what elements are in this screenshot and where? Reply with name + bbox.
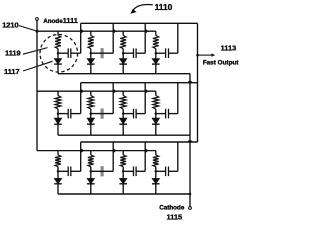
svg-text:1119: 1119 xyxy=(5,48,21,57)
svg-text:1210: 1210 xyxy=(2,21,18,30)
svg-text:1113: 1113 xyxy=(221,44,237,53)
svg-text:1110: 1110 xyxy=(155,2,173,12)
svg-text:1115: 1115 xyxy=(167,213,183,221)
svg-text:Cathode: Cathode xyxy=(159,204,185,211)
svg-text:1117: 1117 xyxy=(4,67,20,76)
svg-text:Anode1111: Anode1111 xyxy=(43,16,78,25)
svg-text:Fast Output: Fast Output xyxy=(203,59,240,66)
